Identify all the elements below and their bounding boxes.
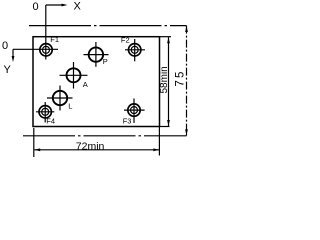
top edge extension line (for 58min dimension) (160, 36, 172, 38)
port L (47, 86, 73, 111)
X axis origin vertical line through F1 (45, 5, 47, 60)
svg-text:F4: F4 (46, 116, 55, 125)
mounting hole F3 (124, 99, 145, 123)
svg-text:X: X (74, 1, 82, 13)
Y axis arrow (12, 49, 15, 62)
72min right extension line (158, 127, 160, 156)
svg-text:A: A (83, 80, 88, 89)
bottom centerline (phantom edge, dash-dot) (23, 135, 187, 137)
72min right arrow (153, 148, 159, 151)
bottom edge extension line (for 58min dimension) (160, 126, 170, 128)
svg-text:F2: F2 (121, 35, 130, 44)
72min left arrow (34, 148, 40, 151)
right vertical dash-dot line (75 dimension line) (186, 26, 188, 136)
58min top arrow (167, 37, 170, 43)
top centerline (phantom edge, dash-dot) (29, 25, 187, 27)
svg-text:72min: 72min (76, 141, 105, 153)
mounting hole F4 (36, 102, 54, 122)
svg-text:F3: F3 (123, 117, 132, 126)
svg-text:F1: F1 (50, 35, 59, 44)
72min left extension line (33, 128, 35, 157)
75 dimension bottom arrow (185, 129, 188, 135)
svg-text:0: 0 (2, 40, 8, 52)
svg-text:58min: 58min (159, 66, 170, 93)
svg-text:P: P (103, 57, 108, 66)
body outline (mounting face rectangle) (33, 37, 160, 127)
svg-text:Y: Y (4, 64, 12, 76)
75 dimension top arrow (185, 26, 188, 32)
svg-text:75: 75 (175, 69, 187, 86)
port P (84, 42, 109, 67)
mounting hole F1 (40, 44, 52, 56)
58min dimension line (168, 37, 170, 126)
58min bottom arrow (167, 120, 170, 126)
port A (60, 62, 88, 89)
X axis arrow (46, 4, 68, 7)
Y axis horizontal line through F1 (13, 48, 58, 50)
svg-text:L: L (68, 101, 72, 110)
72min dimension line (34, 149, 159, 151)
mounting hole F2 (125, 39, 145, 61)
svg-text:0: 0 (33, 1, 39, 13)
